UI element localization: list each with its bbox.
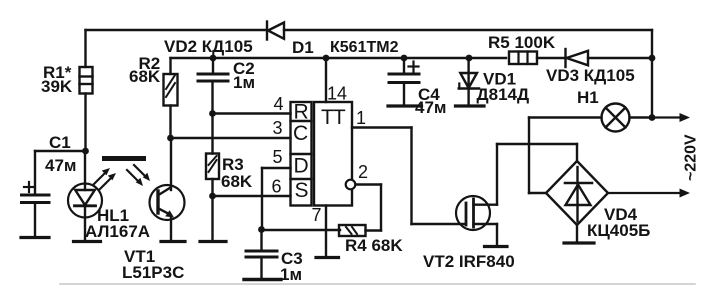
capacitor C2 1м <box>198 58 255 154</box>
svg-text:68K: 68K <box>129 67 161 86</box>
wire pin 5 (D) <box>262 168 291 230</box>
node VD1 top <box>466 55 473 62</box>
resistor R2 68K <box>129 54 178 138</box>
svg-text:3: 3 <box>273 118 283 138</box>
ground HL1 <box>74 240 101 243</box>
wire pin 1 to VT2 gate <box>352 128 466 225</box>
wire bridge right to mains 2 + arrow <box>608 189 690 198</box>
op IC D1 K561TM2 flip-flop <box>272 38 399 225</box>
LED HL1 АЛ167А <box>68 151 150 241</box>
svg-text:39K: 39K <box>41 77 73 96</box>
ground VT2 <box>485 245 508 248</box>
ground VD4 <box>564 241 594 244</box>
wire pin 6 (S) <box>213 195 291 197</box>
ground R3 <box>200 240 226 243</box>
svg-text:R5 100K: R5 100K <box>488 33 556 52</box>
wire bridge bottom <box>576 225 578 242</box>
wire H1 right <box>630 116 654 118</box>
svg-text:Д814Д: Д814Д <box>477 85 530 104</box>
node C3 junction <box>258 226 265 233</box>
node R2/pin3/VT1 <box>167 135 174 142</box>
wire rail2 VD3 to right vertical <box>588 57 652 59</box>
wire top rail right segment <box>284 29 652 31</box>
bridge rectifier VD4 КЦ405Б <box>546 161 650 240</box>
svg-text:14: 14 <box>327 84 347 104</box>
phototransistor VT1 L51P3C <box>122 138 185 282</box>
ground pin 7 <box>316 256 339 259</box>
wire top rail left segment <box>86 29 267 31</box>
svg-text:47м: 47м <box>45 156 77 175</box>
svg-text:VD3 КД105: VD3 КД105 <box>546 66 635 85</box>
svg-text:D: D <box>294 155 309 178</box>
resistor R4 68K <box>339 225 403 255</box>
ground VD1 <box>456 104 485 107</box>
svg-text:К561ТМ2: К561ТМ2 <box>330 39 399 56</box>
wire VT2 source down <box>496 224 498 246</box>
node pin4/C2 <box>209 110 216 117</box>
wire pin 14 <box>325 58 327 102</box>
arrows into VT1 <box>127 165 150 186</box>
scan artifact bottom streak <box>60 283 695 285</box>
wire pin 4 (R) <box>213 112 291 114</box>
wire C3 node to R4 <box>262 229 341 231</box>
node mains top <box>649 114 656 121</box>
inversion bubble pin 2 <box>346 180 356 190</box>
arrow mains line 1 <box>653 113 690 122</box>
svg-text:68K: 68K <box>221 172 253 191</box>
svg-text:R: R <box>294 101 309 124</box>
wire rail2 R5 to VD3 <box>537 57 565 59</box>
svg-text:C1: C1 <box>49 133 71 152</box>
resistor R1 39K <box>41 30 93 151</box>
svg-text:S: S <box>295 179 309 202</box>
svg-text:5: 5 <box>273 147 283 167</box>
resistor R5 100K <box>488 33 556 64</box>
light channel bar <box>102 156 146 161</box>
svg-text:1: 1 <box>356 108 366 128</box>
svg-text:D1: D1 <box>292 38 314 57</box>
svg-text:2: 2 <box>358 162 368 182</box>
node pin14 top <box>323 55 330 62</box>
capacitor C4 47м <box>389 58 447 117</box>
svg-text:L51P3C: L51P3C <box>122 263 184 282</box>
node rail2 right <box>649 55 656 62</box>
svg-text:VT2 IRF840: VT2 IRF840 <box>423 252 515 271</box>
diode VD3 КД105 <box>546 49 635 85</box>
wire C1 branch <box>35 150 86 152</box>
svg-text:7: 7 <box>312 205 322 225</box>
svg-text:R4 68K: R4 68K <box>345 236 403 255</box>
svg-text:4: 4 <box>274 94 284 114</box>
wire right vertical (top rail to mains node) <box>651 30 653 118</box>
lamp H1 <box>577 88 630 132</box>
wire H1 left to bridge <box>529 118 602 194</box>
ground C1 <box>21 236 49 239</box>
svg-text:Н1: Н1 <box>577 88 599 107</box>
node C4 top <box>401 55 408 62</box>
resistor R3 68K <box>206 154 253 241</box>
ground C4 <box>388 104 422 107</box>
svg-text:1м: 1м <box>233 73 255 92</box>
svg-text:VD2 КД105: VD2 КД105 <box>164 37 253 56</box>
node pin6/R3 <box>209 193 216 200</box>
svg-text:КЦ405Б: КЦ405Б <box>587 221 650 240</box>
svg-text:6: 6 <box>272 177 282 197</box>
capacitor C3 1м <box>246 230 303 285</box>
wire pin2 to R4 <box>356 185 382 231</box>
svg-text:АЛ167А: АЛ167А <box>85 222 150 241</box>
node C2 top <box>210 55 217 62</box>
wire VT2 drain to bridge top <box>497 144 577 205</box>
capacitor C1 47м <box>22 133 77 236</box>
svg-text:TT: TT <box>321 106 346 129</box>
wire pin 3 (C) <box>171 137 291 139</box>
svg-text:~220V: ~220V <box>683 134 700 181</box>
svg-text:C: C <box>293 122 308 145</box>
wire pin 7 <box>325 206 327 257</box>
wire supply rail 2 left <box>171 57 507 59</box>
ground VT1 <box>161 240 185 243</box>
ground C3 <box>244 278 281 281</box>
svg-text:1м: 1м <box>280 265 302 284</box>
node R1/C1/HL1 junction <box>82 148 89 155</box>
MOSFET VT2 IRF840 <box>423 196 515 271</box>
zener VD1 Д814Д <box>459 58 529 105</box>
diode VD2 КД105 <box>164 22 284 57</box>
